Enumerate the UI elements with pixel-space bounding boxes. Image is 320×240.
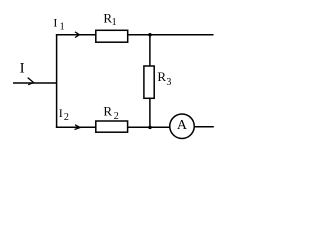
resistor R1 [96, 30, 128, 42]
svg-text:R: R [103, 104, 112, 119]
svg-text:2: 2 [114, 111, 119, 122]
label R3 [157, 69, 171, 88]
label R2 [103, 104, 118, 122]
wire: middle branch lower segment [149, 98, 151, 127]
label I2 [59, 106, 69, 123]
label R1 [103, 10, 116, 28]
resistor R2 [96, 121, 128, 132]
svg-text:A: A [177, 118, 188, 133]
svg-text:I: I [59, 106, 63, 120]
junction: top node [148, 33, 152, 37]
svg-text:2: 2 [64, 112, 69, 123]
wire: input lead [13, 82, 57, 84]
svg-text:R: R [157, 69, 166, 84]
current arrow I2 [75, 125, 81, 130]
wire: bottom branch middle segment [128, 126, 170, 128]
svg-text:3: 3 [166, 77, 171, 88]
wire: top branch right segment [128, 34, 214, 36]
current arrow on input lead (direction of I) [28, 78, 34, 85]
svg-text:1: 1 [112, 17, 117, 28]
svg-text:I: I [20, 61, 25, 77]
resistor R3 [144, 66, 154, 98]
svg-text:I: I [53, 16, 57, 30]
wire: left vertical bus [56, 34, 58, 128]
wire: bottom branch left segment [56, 126, 96, 128]
wire: bottom output stub [194, 126, 214, 128]
wire: middle branch upper segment [149, 35, 151, 66]
svg-text:1: 1 [60, 21, 65, 32]
wire: top branch left segment [56, 34, 96, 36]
junction: bottom node [148, 126, 152, 129]
ammeter A (meter circle) [170, 114, 195, 139]
label I1 [53, 16, 64, 33]
current arrow I1 [75, 31, 81, 38]
